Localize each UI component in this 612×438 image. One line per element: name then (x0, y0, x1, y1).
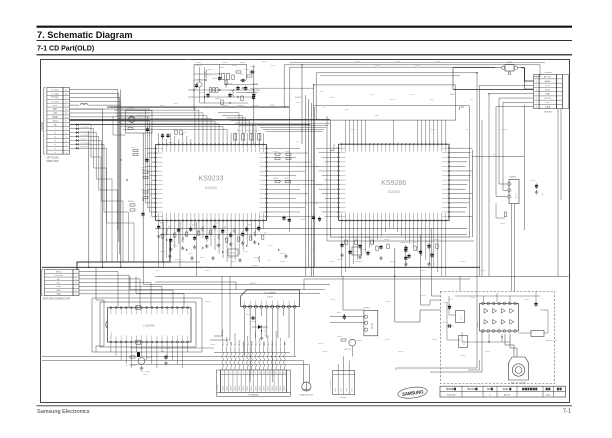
wires CN8304 (496, 98, 507, 225)
svg-text:R8315: R8315 (485, 351, 490, 353)
svg-text:CLOCK: CLOCK (544, 98, 552, 100)
top bus wires (250, 63, 545, 106)
wires KS9286 top pins (330, 107, 464, 143)
svg-text:TRVO: TRVO (231, 341, 233, 346)
svg-text:7-1: 7-1 (563, 409, 571, 415)
svg-text:CN8301: CN8301 (217, 383, 219, 390)
svg-text:C82: C82 (248, 225, 251, 227)
svg-text:RA8201: RA8201 (128, 200, 135, 203)
svg-text:13: 13 (271, 373, 273, 375)
svg-text:R8286: R8286 (460, 261, 465, 263)
svg-text:DM-: DM- (57, 286, 61, 288)
svg-text:AF OUT: AF OUT (544, 76, 552, 79)
svg-text:C8252: C8252 (355, 61, 360, 63)
connector CN1202 (main s/w) (41, 88, 70, 164)
svg-text:P.T.(G): P.T.(G) (52, 101, 59, 103)
svg-text:R8284: R8284 (390, 261, 395, 263)
svg-text:R8203: R8203 (199, 92, 205, 94)
svg-text:8: 8 (251, 373, 252, 375)
svg-text:C8258: C8258 (430, 129, 435, 131)
svg-text:GP-P1200: GP-P1200 (47, 156, 60, 160)
chip IC8302 driver array (477, 302, 519, 332)
svg-text:7: 7 (247, 373, 248, 375)
chip IC8206 KS9286 decoder (338, 143, 450, 221)
op-chip IC8200 KS9233 digital servo (155, 144, 268, 222)
diode D8204 cluster (246, 314, 268, 340)
svg-text:LA9240M: LA9240M (143, 324, 154, 328)
svg-text:5: 5 (75, 286, 76, 288)
svg-text:3: 3 (230, 373, 231, 375)
svg-text:X8201: X8201 (353, 251, 358, 253)
svg-text:TRVO: TRVO (272, 341, 274, 346)
svg-text:RELAY: RELAY (371, 322, 374, 329)
svg-text:R8236: R8236 (228, 257, 233, 259)
svg-text:C8256: C8256 (425, 241, 431, 243)
monitor resistor (519, 291, 559, 342)
wires KS9286 left pins (306, 95, 338, 276)
svg-text:SENS: SENS (247, 386, 249, 390)
svg-text:12: 12 (267, 373, 269, 375)
title text 7. Schematic Diagram (37, 30, 133, 40)
wires in dashed box (447, 293, 540, 343)
svg-text:SENS: SENS (227, 386, 229, 390)
left vertical bus wires (88, 90, 144, 268)
svg-text:RFO: RFO (320, 91, 324, 93)
loop wire around KS9286 (327, 116, 474, 241)
svg-text:CN1202: CN1202 (41, 122, 44, 131)
svg-text:KTC3875S: KTC3875S (126, 365, 136, 367)
svg-text:TRVO: TRVO (227, 341, 229, 346)
svg-text:IC8206: IC8206 (388, 190, 400, 194)
svg-text:6: 6 (75, 290, 76, 292)
svg-text:CN8302: CN8302 (340, 397, 347, 399)
svg-text:TRVO: TRVO (247, 341, 249, 346)
svg-text:P.T.(C): P.T.(C) (52, 89, 59, 91)
wires KS9286 bottom pins (342, 221, 446, 276)
wires IC8200 bottom pins (159, 221, 264, 267)
svg-text:R8206: R8206 (212, 78, 218, 80)
transistor Q8301 cluster (336, 312, 362, 351)
svg-text:C8281: C8281 (310, 249, 315, 251)
wires to CN8302 (338, 357, 349, 371)
svg-text:MONITOR TR.: MONITOR TR. (546, 340, 558, 342)
svg-text:TRVO: TRVO (264, 341, 266, 346)
svg-text:C8285: C8285 (420, 270, 425, 272)
svg-text:9004: 9004 (143, 374, 147, 376)
svg-text:9: 9 (255, 373, 256, 375)
svg-text:TRVO: TRVO (280, 341, 282, 346)
svg-text:2: 2 (536, 81, 537, 83)
svg-text:L-CH: L-CH (545, 85, 550, 87)
svg-text:MUTE: MUTE (390, 99, 396, 101)
svg-text:SENS: SENS (235, 386, 237, 390)
svg-text:C8304: C8304 (420, 295, 425, 297)
footer rule (37, 405, 573, 407)
svg-text:R8307: R8307 (385, 339, 390, 341)
svg-text:P.T.(B): P.T.(B) (52, 93, 59, 95)
svg-text:4: 4 (75, 282, 76, 284)
subtitle underline (37, 54, 573, 56)
svg-text:MOTOR-CONNECTOR: MOTOR-CONNECTOR (43, 297, 70, 301)
svg-text:C8201: C8201 (222, 62, 228, 64)
svg-text:SDATA: SDATA (295, 96, 302, 99)
svg-text:C8310: C8310 (530, 180, 535, 182)
svg-text:TRVO: TRVO (276, 341, 278, 346)
svg-text:R8211: R8211 (160, 105, 165, 107)
parts right of KA9258 (394, 242, 479, 360)
wires CN8303 (453, 68, 540, 107)
resistor pack above IC1 right (234, 134, 262, 144)
svg-text:SENS: SENS (222, 386, 224, 390)
connector CN8303 SUB BD (534, 72, 569, 113)
svg-text:C8320: C8320 (443, 302, 448, 304)
svg-text:KIA7045: KIA7045 (137, 114, 144, 117)
svg-text:VDD: VDD (53, 121, 58, 123)
svg-text:C8213: C8213 (173, 103, 178, 105)
title block table (440, 386, 566, 397)
svg-text:C8249: C8249 (300, 219, 305, 221)
svg-text:C8221: C8221 (182, 132, 187, 134)
wires IC8200 top pins (113, 107, 263, 143)
svg-text:SPLD: SPLD (56, 271, 62, 273)
thick bus wire VCC (107, 106, 289, 108)
svg-text:SENS: SENS (259, 386, 261, 390)
title underline (37, 40, 573, 42)
svg-text:R82: R82 (259, 140, 261, 143)
svg-text:7-1 CD Part(OLD): 7-1 CD Part(OLD) (37, 45, 94, 52)
svg-text:C8314: C8314 (460, 355, 465, 357)
svg-text:DATA: DATA (545, 105, 551, 108)
wires CN8304 to loading unit (512, 204, 515, 292)
svg-text:R8261: R8261 (246, 314, 251, 316)
svg-text:KTC3875S: KTC3875S (265, 326, 267, 336)
svg-text:Q8203: Q8203 (146, 357, 152, 359)
svg-text:R8265: R8265 (165, 348, 170, 350)
svg-text:C8210: C8210 (252, 105, 258, 107)
svg-text:IC8302: IC8302 (477, 322, 479, 328)
wires KA9258 loops (155, 279, 470, 290)
resistor array RA8301 (222, 341, 287, 370)
svg-text:RV: RV (487, 388, 491, 391)
svg-text:(+)FILTER: (+)FILTER (126, 109, 135, 111)
svg-text:R8233: R8233 (200, 257, 205, 259)
svg-text:SENS: SENS (231, 386, 233, 390)
svg-text:TRVO: TRVO (243, 341, 245, 346)
svg-text:Q8301: Q8301 (357, 340, 363, 342)
svg-text:104: 104 (192, 225, 195, 227)
svg-text:BATT-DET LASER: BATT-DET LASER (511, 381, 527, 384)
capacitor C8310 (530, 180, 544, 196)
svg-text:LRCK: LRCK (410, 94, 416, 96)
svg-text:CN8303: CN8303 (544, 72, 552, 74)
svg-text:10: 10 (259, 373, 261, 375)
svg-text:1: 1 (222, 373, 223, 375)
svg-text:KS9233: KS9233 (199, 176, 224, 183)
component cluster above IC8200 (R/C network) (188, 62, 260, 110)
svg-text:AGND: AGND (545, 80, 552, 83)
thick bus wire 2 (70, 124, 311, 126)
svg-text:6: 6 (536, 98, 537, 100)
svg-text:KA9258: KA9258 (250, 282, 256, 285)
loop wire box around IC3 (92, 298, 202, 352)
svg-text:SENS: SENS (284, 386, 286, 390)
svg-text:+B: +B (54, 125, 57, 127)
svg-text:TO MECHA: TO MECHA (248, 394, 259, 397)
svg-text:R8248: R8248 (280, 261, 285, 263)
svg-text:SPLD: SPLD (105, 261, 110, 263)
svg-text:R-CH: R-CH (545, 89, 551, 91)
svg-text:R8253: R8253 (375, 65, 380, 67)
schematic border frame (41, 60, 570, 403)
svg-text:R8209: R8209 (238, 105, 244, 107)
svg-text:SCLK: SCLK (296, 102, 301, 104)
svg-text:R82: R82 (235, 140, 237, 143)
svg-text:16.9MHz: 16.9MHz (355, 261, 363, 263)
svg-text:MAIN S/W: MAIN S/W (47, 159, 60, 163)
svg-text:GND: GND (52, 117, 57, 119)
svg-text:L.B: L.B (53, 113, 57, 115)
svg-text:C8226: C8226 (254, 130, 259, 132)
svg-text:R8231: R8231 (173, 245, 178, 247)
svg-text:KTA1504: KTA1504 (344, 348, 351, 351)
svg-text:P.T.(A): P.T.(A) (52, 96, 59, 99)
wires IC3 bottom pins (111, 344, 188, 368)
svg-text:Samsung Electronics: Samsung Electronics (37, 409, 90, 415)
svg-text:C8287: C8287 (480, 270, 485, 272)
svg-text:4: 4 (235, 373, 236, 375)
svg-text:C8204: C8204 (215, 98, 221, 100)
svg-text:PICK-UP: PICK-UP (54, 275, 63, 277)
svg-text:R8305: R8305 (500, 223, 505, 225)
svg-text:IC8204: IC8204 (267, 297, 274, 299)
svg-text:R8240: R8240 (280, 253, 285, 255)
switches SW8301 SW8302 (443, 302, 468, 348)
resistors between ICs (273, 151, 321, 223)
svg-text:R8204: R8204 (219, 67, 225, 69)
svg-text:TRVO: TRVO (256, 341, 258, 346)
svg-text:R8311: R8311 (448, 299, 453, 301)
svg-text:SENS: SENS (276, 386, 278, 390)
svg-text:+5V: +5V (53, 105, 58, 107)
svg-text:SW2: SW2 (464, 341, 466, 345)
svg-text:MO: MO (53, 109, 57, 111)
staircase wires cluster to IC1 right combs (218, 113, 256, 133)
svg-text:C8219: C8219 (168, 142, 173, 144)
svg-text:C8235: C8235 (216, 245, 221, 247)
svg-text:TRVO: TRVO (260, 341, 262, 346)
svg-text:C8266: C8266 (100, 301, 105, 303)
svg-text:X8301: X8301 (507, 62, 514, 64)
svg-text:C8218: C8218 (159, 129, 164, 131)
transistor Q8201 cluster (113, 109, 152, 136)
svg-text:IC8205: IC8205 (111, 331, 113, 338)
svg-text:R8305: R8305 (318, 343, 323, 345)
svg-text:C8237: C8237 (243, 251, 248, 253)
thick bus wire GND (70, 119, 331, 121)
bottom horizontal wires (42, 348, 309, 372)
bus loop wires IC1-IC2 (254, 124, 330, 132)
svg-text:15: 15 (279, 373, 281, 375)
chip IC8204 KA9258 driver (241, 290, 300, 308)
svg-text:R8253: R8253 (384, 239, 390, 241)
svg-text:R82: R82 (251, 140, 253, 143)
svg-text:R8321: R8321 (443, 322, 448, 324)
wire BLK net (473, 154, 525, 156)
wires relay area (330, 276, 365, 356)
svg-text:R8246: R8246 (273, 178, 278, 180)
svg-text:TRVO: TRVO (284, 341, 286, 346)
svg-text:16: 16 (283, 373, 285, 375)
svg-text:C8250: C8250 (338, 237, 344, 239)
svg-text:R8313: R8313 (524, 299, 529, 301)
svg-text:L1202: L1202 (81, 104, 86, 106)
svg-text:C8306: C8306 (322, 351, 327, 353)
svg-text:TRVO: TRVO (268, 341, 270, 346)
svg-text:SL-: SL- (57, 279, 61, 281)
svg-text:SENS: SENS (255, 386, 257, 390)
svg-text:14: 14 (275, 373, 277, 375)
resistors left of IC8200 (120, 147, 153, 217)
svg-text:C8251: C8251 (350, 129, 355, 131)
footer text Samsung Electronics (37, 409, 90, 415)
svg-text:B+: B+ (466, 129, 468, 131)
svg-text:4: 4 (536, 89, 537, 91)
svg-text:TRVO: TRVO (239, 341, 241, 346)
svg-text:3: 3 (536, 85, 537, 87)
svg-text:C8232: C8232 (188, 253, 193, 255)
wires KA9258 pins down (245, 308, 295, 382)
svg-text:R8238: R8238 (254, 257, 259, 259)
chip IC8205 LA9240M motor driver (106, 306, 191, 345)
svg-text:C8230: C8230 (160, 251, 165, 253)
component cluster below KS9286 (crystal X8201) (337, 237, 440, 266)
svg-text:TRVO: TRVO (251, 341, 253, 346)
svg-text:C8312: C8312 (470, 297, 475, 299)
loop wires around IC3 (96, 267, 330, 352)
svg-text:C8205: C8205 (207, 69, 213, 71)
svg-text:R8225: R8225 (131, 147, 136, 149)
wires right bottom (396, 290, 482, 372)
svg-text:5: 5 (239, 373, 240, 375)
centre vertical bus wires (110, 64, 540, 276)
svg-text:7: 7 (536, 102, 537, 104)
svg-text:R8302: R8302 (337, 336, 342, 338)
svg-text:R8217: R8217 (262, 61, 267, 63)
svg-text:C8239: C8239 (268, 245, 273, 247)
svg-text:KEY: KEY (546, 102, 551, 104)
connector CN8301 TO MECHA (217, 370, 291, 397)
svg-text:L8201: L8201 (232, 65, 237, 67)
svg-text:6: 6 (243, 373, 244, 375)
wires IC8200 right pins (268, 149, 323, 217)
svg-text:SENS: SENS (272, 386, 274, 390)
svg-text:5: 5 (536, 94, 537, 96)
wires X8301 (453, 68, 534, 89)
svg-text:FILE: FILE (503, 388, 509, 391)
svg-text:Q8202: Q8202 (250, 66, 256, 68)
connector CN8304 (507, 177, 519, 204)
svg-text:R8227: R8227 (141, 189, 146, 191)
svg-text:R8207: R8207 (240, 62, 246, 64)
dashed enclosure (loading unit) (441, 291, 555, 383)
svg-text:104: 104 (264, 233, 267, 235)
svg-text:DATA: DATA (450, 93, 455, 96)
svg-text:KA-9258Z: KA-9258Z (264, 292, 276, 295)
laser unit symbol (509, 357, 529, 384)
svg-text:C8254: C8254 (395, 61, 400, 63)
wires KS9286 right pins (450, 148, 473, 216)
svg-text:P.DOWN: P.DOWN (500, 129, 508, 131)
svg-text:X8202: X8202 (337, 259, 342, 261)
wires laser unit (505, 334, 517, 357)
svg-text:C8214: C8214 (270, 65, 275, 67)
svg-text:C8260: C8260 (399, 242, 404, 244)
svg-text:A2000: A2000 (504, 394, 511, 397)
svg-text:C8264: C8264 (210, 344, 215, 346)
svg-text:DM+: DM+ (56, 290, 61, 292)
wires into dashed box (395, 228, 480, 370)
svg-text:SUB BD: SUB BD (544, 111, 552, 113)
svg-text:Q8201: Q8201 (137, 118, 142, 120)
svg-text:VR8201: VR8201 (252, 265, 259, 267)
key diodes D1201-D1207 (70, 123, 135, 262)
svg-text:R8223: R8223 (237, 130, 242, 132)
svg-text:D8301: D8301 (330, 299, 335, 301)
svg-text:TRVO: TRVO (223, 341, 225, 346)
svg-text:21-22 LIGHT: 21-22 LIGHT (140, 371, 151, 373)
svg-text:R8282: R8282 (330, 261, 335, 263)
svg-text:D8204: D8204 (250, 321, 256, 323)
connector CN1201 MOTOR-CONNECTOR (42, 267, 79, 301)
svg-text:0021: 0021 (546, 395, 552, 397)
svg-text:R8215: R8215 (127, 125, 132, 127)
relay RY8301 (363, 308, 378, 336)
svg-text:RY8301: RY8301 (363, 308, 370, 310)
remocon sensor X8301 (495, 62, 521, 76)
svg-text:SENS: SENS (243, 386, 245, 390)
svg-text:R8245: R8245 (285, 151, 290, 153)
wires CN1202 to IC8200 left pins (145, 110, 154, 217)
svg-text:GND: GND (56, 294, 61, 296)
svg-text:IC8203: IC8203 (175, 259, 181, 261)
horizontal bus wires under ICs (155, 228, 467, 234)
svg-text:SENS: SENS (280, 386, 282, 390)
wires CN1201 to IC3 (79, 271, 184, 307)
svg-text:CN1201: CN1201 (50, 267, 59, 269)
capacitor C8262 (160, 351, 168, 365)
svg-text:R8251: R8251 (352, 237, 358, 239)
connector CN8302 DC POWER (330, 370, 355, 399)
svg-text:SERVO: SERVO (516, 192, 518, 199)
svg-text:R8262: R8262 (412, 242, 417, 244)
transistor Q8203 (126, 352, 152, 376)
svg-text:C8202: C8202 (222, 105, 228, 107)
verticals IC1 to bus (164, 222, 197, 276)
svg-text:C8216: C8216 (186, 59, 191, 61)
svg-text:11: 11 (263, 373, 265, 375)
svg-text:R8224: R8224 (246, 130, 251, 132)
svg-text:SW5108: SW5108 (447, 395, 456, 397)
svg-text:R8263: R8263 (205, 301, 210, 303)
long bus wire A (42, 266, 480, 268)
misc reference labels (100, 59, 529, 357)
footer page number 7-1 (563, 409, 571, 415)
svg-text:SENS: SENS (268, 386, 270, 390)
Samsung logo (397, 386, 428, 400)
svg-text:C8247: C8247 (284, 178, 289, 180)
svg-text:SENS: SENS (264, 386, 266, 390)
subtitle 7-1 CD Part(OLD) (37, 45, 94, 52)
